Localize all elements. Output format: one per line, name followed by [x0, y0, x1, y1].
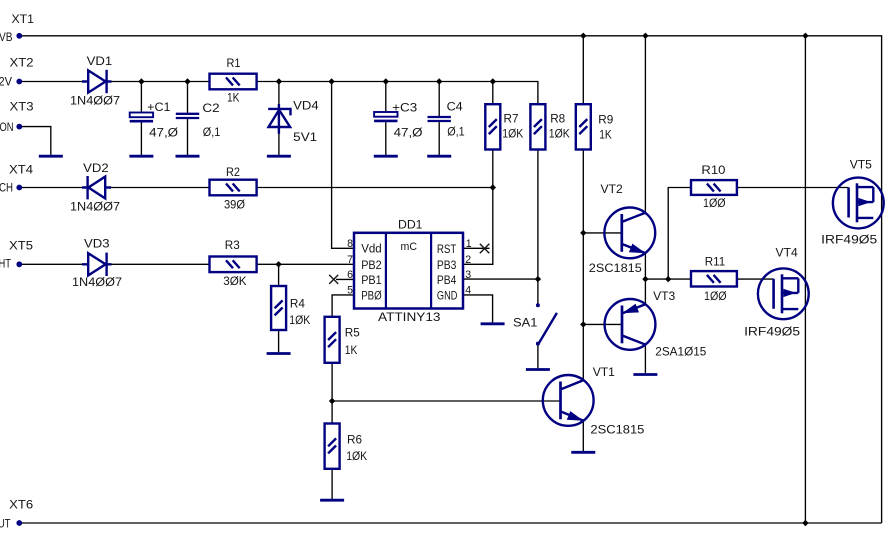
ground VT1 — [571, 451, 595, 454]
wire R9 top to rail — [582, 36, 584, 104]
svg-text:DD1: DD1 — [398, 218, 423, 232]
wire R2 to node at R7 — [257, 187, 493, 189]
ground C2 — [176, 155, 200, 158]
capacitor C3 electrolytic — [374, 112, 397, 121]
resistor R7 vertical — [485, 104, 500, 149]
zener diode VD4 — [268, 104, 290, 134]
wire R1 to R8 top branch row — [257, 82, 538, 105]
ground DD1 pin4 — [481, 322, 505, 325]
wire C4 bottom to ground — [438, 122, 440, 155]
wire DD1 pin 4 GND to ground — [463, 295, 493, 323]
node R10 branch — [665, 276, 671, 282]
wire DD1 pin 1 RST stub — [463, 247, 490, 249]
ground C1 — [129, 155, 153, 158]
wire VD3 cathode to R3 — [107, 263, 210, 265]
transistor VT1 2SC1815 npn — [543, 375, 594, 426]
svg-text:4: 4 — [465, 285, 471, 297]
wire R9 bottom to VT2 base node — [582, 150, 584, 233]
svg-text:GND: GND — [437, 288, 458, 302]
wire DD1 pin 5 to R5 top — [332, 295, 354, 317]
wire VT2 emitter to node — [644, 253, 646, 279]
wire R7 bottom through node down to DD1 pin 2 — [463, 150, 493, 265]
wire VT3 emitter to node — [644, 279, 646, 304]
wire node row to R11 — [645, 278, 691, 280]
wire C2 bottom to ground — [187, 119, 189, 155]
svg-text:7: 7 — [347, 254, 353, 266]
wire C3 top — [385, 82, 387, 113]
resistor R3 — [210, 257, 257, 273]
ground C3 — [374, 155, 398, 158]
svg-text:+C1: +C1 — [147, 100, 170, 114]
svg-text:1K: 1K — [227, 91, 240, 105]
svg-text:47,Ø: 47,Ø — [394, 125, 423, 139]
wire R6 bottom to ground — [331, 469, 333, 499]
wire VD4 bottom to ground — [278, 128, 280, 155]
wire R10 to VT5 gate — [737, 187, 849, 189]
svg-text:1ØØ: 1ØØ — [704, 289, 727, 303]
svg-text:Ø,1: Ø,1 — [447, 125, 465, 139]
svg-text:UT: UT — [0, 517, 11, 531]
wire XT5 to VD3 anode — [22, 263, 89, 265]
wire XT2 to VD1 anode — [22, 81, 89, 83]
wire C4 top — [438, 82, 440, 117]
svg-text:PB1: PB1 — [361, 273, 382, 287]
node C3 top — [383, 78, 389, 84]
wire R3 to DD1 pin 7 — [257, 263, 354, 265]
svg-text:+C3: +C3 — [392, 101, 417, 115]
svg-text:39Ø: 39Ø — [224, 198, 245, 212]
svg-text:R1: R1 — [227, 56, 241, 70]
svg-text:C2: C2 — [202, 101, 219, 115]
svg-text:R10: R10 — [701, 163, 725, 177]
svg-text:3: 3 — [465, 269, 471, 281]
svg-text:1ØK: 1ØK — [346, 449, 368, 463]
svg-text:VT2: VT2 — [601, 182, 623, 196]
capacitor C4 — [428, 117, 451, 121]
wire VT2 base — [583, 232, 622, 234]
svg-text:IRF49Ø5: IRF49Ø5 — [821, 233, 877, 247]
transistor VT5 IRF4905 p-mosfet — [833, 178, 884, 229]
wire node up to R10 branch — [668, 188, 691, 280]
svg-text:RST: RST — [437, 242, 457, 256]
wire R11 to VT4 gate — [737, 278, 774, 280]
svg-text:ON: ON — [0, 120, 14, 134]
svg-text:PB4: PB4 — [437, 273, 457, 287]
svg-text:PB3: PB3 — [437, 258, 457, 272]
svg-text:XT2: XT2 — [10, 55, 34, 69]
svg-text:Vdd: Vdd — [361, 242, 382, 256]
no-connect X on DD1 pin 6 — [329, 275, 338, 284]
svg-text:1N4ØØ7: 1N4ØØ7 — [72, 275, 122, 289]
node C4 top — [436, 78, 442, 84]
wire R7 top — [492, 82, 494, 105]
svg-text:R7: R7 — [504, 112, 519, 126]
svg-text:R2: R2 — [226, 165, 240, 179]
wire XT3 to ground — [22, 127, 51, 156]
svg-text:2SC1815: 2SC1815 — [590, 422, 644, 436]
wire VT3 collector to ground — [644, 345, 646, 374]
svg-text:VB: VB — [0, 30, 13, 44]
wire node to SA1 top contact — [537, 279, 539, 304]
node VT3 base — [580, 321, 586, 327]
svg-text:PB2: PB2 — [361, 258, 382, 272]
wire R5 bottom to node — [331, 363, 333, 401]
svg-text:2SC1815: 2SC1815 — [589, 261, 642, 275]
node C2 top — [184, 78, 190, 84]
wire Vdd feed from top row to DD1 pin 8 — [332, 82, 354, 249]
capacitor C1 electrolytic — [130, 113, 153, 122]
svg-text:47,Ø: 47,Ø — [149, 125, 178, 139]
wire C1 bottom to ground — [140, 122, 142, 155]
ground SA1 — [526, 368, 550, 371]
node R7 top — [490, 78, 496, 84]
svg-text:VD2: VD2 — [83, 161, 109, 175]
resistor R4 vertical — [271, 286, 286, 330]
resistor R9 vertical — [576, 104, 591, 149]
wire VT2 base node to VT3 base node — [582, 233, 584, 325]
svg-text:1ØK: 1ØK — [289, 313, 311, 327]
svg-text:2: 2 — [465, 254, 471, 266]
svg-text:R5: R5 — [345, 325, 360, 339]
ground R6 — [320, 499, 344, 502]
svg-text:C4: C4 — [447, 100, 463, 114]
svg-text:6: 6 — [347, 269, 353, 281]
terminal XT6 — [17, 521, 21, 525]
svg-text:VD4: VD4 — [293, 99, 319, 113]
resistor R8 vertical — [530, 104, 545, 149]
ground R4 — [267, 352, 291, 355]
node VD4 top — [276, 78, 282, 84]
svg-text:VT5: VT5 — [850, 157, 872, 171]
resistor R11 — [691, 271, 737, 286]
svg-text:ATTINY13: ATTINY13 — [378, 310, 441, 324]
diode VD1 — [82, 70, 112, 93]
ground XT3 — [39, 155, 63, 158]
terminal XT2 — [17, 79, 21, 83]
svg-text:1N4ØØ7: 1N4ØØ7 — [70, 93, 120, 107]
transistor VT2 2SC1815 npn — [604, 208, 655, 259]
wire VD1 cathode to R1 — [107, 81, 210, 83]
wire R4 bottom to ground — [278, 330, 280, 352]
wire C1 top — [140, 82, 142, 113]
svg-text:XT3: XT3 — [10, 99, 34, 113]
capacitor C2 — [176, 114, 199, 118]
svg-text:R4: R4 — [290, 296, 305, 310]
svg-text:5: 5 — [347, 285, 353, 297]
svg-text:mC: mC — [401, 241, 418, 253]
svg-text:VT3: VT3 — [653, 289, 675, 303]
switch SA1 — [536, 304, 557, 345]
wire VD2 anode to R2 — [105, 187, 209, 189]
node R7 bottom R2 — [490, 184, 496, 190]
ground VD4 — [267, 155, 291, 158]
node Vdd feed — [328, 78, 334, 84]
ground VT3 — [633, 373, 657, 376]
wire C2 top — [187, 82, 189, 113]
svg-text:3ØK: 3ØK — [223, 274, 247, 288]
svg-text:VT1: VT1 — [593, 365, 615, 379]
resistor R6 vertical — [325, 424, 340, 469]
resistor R2 — [210, 180, 257, 196]
svg-text:VD3: VD3 — [84, 237, 110, 251]
svg-text:XT6: XT6 — [9, 498, 33, 512]
svg-text:1ØK: 1ØK — [502, 127, 524, 141]
wire VT4 drain-source vertical net — [804, 36, 806, 523]
node R5 R6 VT1 base — [329, 398, 335, 404]
node rail VT2 collector — [642, 33, 648, 39]
no-connect X on DD1 pin 1 — [480, 244, 490, 254]
svg-text:Ø,1: Ø,1 — [203, 125, 221, 139]
diode VD3 — [82, 253, 112, 276]
svg-text:XT4: XT4 — [9, 163, 33, 177]
wire rail to VT2 collector — [644, 36, 646, 213]
svg-text:1: 1 — [466, 238, 472, 250]
wire VT3 base — [583, 323, 622, 325]
svg-text:2V: 2V — [0, 74, 13, 88]
node rail VT4 net — [802, 33, 808, 39]
wire R4 top — [278, 264, 280, 286]
svg-text:1N4ØØ7: 1N4ØØ7 — [70, 199, 120, 213]
svg-text:XT5: XT5 — [9, 239, 33, 253]
terminal XT4 — [17, 185, 21, 189]
terminal XT3 — [17, 125, 21, 129]
resistor R1 — [210, 74, 257, 90]
wire R8 bottom to node — [537, 150, 539, 280]
svg-text:R9: R9 — [598, 112, 613, 126]
svg-text:R11: R11 — [705, 254, 725, 268]
wire VT1 base row — [332, 400, 560, 402]
node VT2 base — [580, 230, 586, 236]
node VT2 emitter — [642, 276, 648, 282]
svg-text:VD1: VD1 — [87, 54, 113, 68]
svg-text:HT: HT — [0, 257, 11, 271]
svg-text:2SA1Ø15: 2SA1Ø15 — [655, 344, 706, 358]
wire VD4 top — [278, 82, 280, 109]
svg-text:XT1: XT1 — [12, 12, 35, 26]
svg-text:5V1: 5V1 — [293, 130, 317, 144]
svg-text:IRF49Ø5: IRF49Ø5 — [744, 324, 800, 338]
wire DD1 pin 3 to SA1 node — [463, 278, 538, 280]
svg-text:R6: R6 — [347, 433, 362, 447]
resistor R5 vertical — [325, 317, 340, 363]
wire SA1 pivot to ground — [537, 345, 539, 368]
svg-text:1ØØ: 1ØØ — [703, 196, 726, 210]
svg-text:PBØ: PBØ — [361, 288, 382, 302]
node rail R9 — [580, 33, 586, 39]
node C1 top — [138, 78, 144, 84]
resistor R10 — [691, 180, 737, 195]
svg-text:CH: CH — [0, 181, 13, 195]
wire VT3 base node down to VT1 collector — [582, 324, 584, 380]
wire C3 bottom to ground — [385, 122, 387, 155]
ground C4 — [427, 155, 451, 158]
wire node to R6 top — [331, 401, 333, 424]
svg-text:1ØK: 1ØK — [549, 127, 571, 141]
svg-text:1K: 1K — [345, 343, 358, 357]
wire bottom rail XT6 to right corner — [22, 522, 882, 524]
terminal XT1 — [17, 34, 21, 38]
svg-text:R8: R8 — [550, 112, 565, 126]
transistor VT3 2SA1015 pnp — [605, 299, 656, 350]
node SA1 PB4 — [535, 276, 541, 282]
terminal XT5 — [17, 262, 21, 266]
svg-text:VT4: VT4 — [776, 245, 798, 259]
wire VT1 emitter to ground — [582, 421, 584, 451]
node bottom rail VT4 net — [802, 520, 808, 526]
svg-text:SA1: SA1 — [513, 315, 538, 329]
diode VD2 — [82, 176, 111, 199]
wire DD1 pin 6 stub — [336, 278, 354, 280]
svg-text:8: 8 — [347, 238, 353, 250]
svg-text:1K: 1K — [599, 128, 612, 142]
node R4 top — [275, 261, 281, 267]
IC DD1 ATTINY13 — [354, 233, 463, 309]
svg-text:R3: R3 — [225, 238, 240, 252]
transistor VT4 IRF4905 p-mosfet — [758, 268, 809, 319]
wire XT4 to VD2 cathode — [22, 187, 88, 189]
